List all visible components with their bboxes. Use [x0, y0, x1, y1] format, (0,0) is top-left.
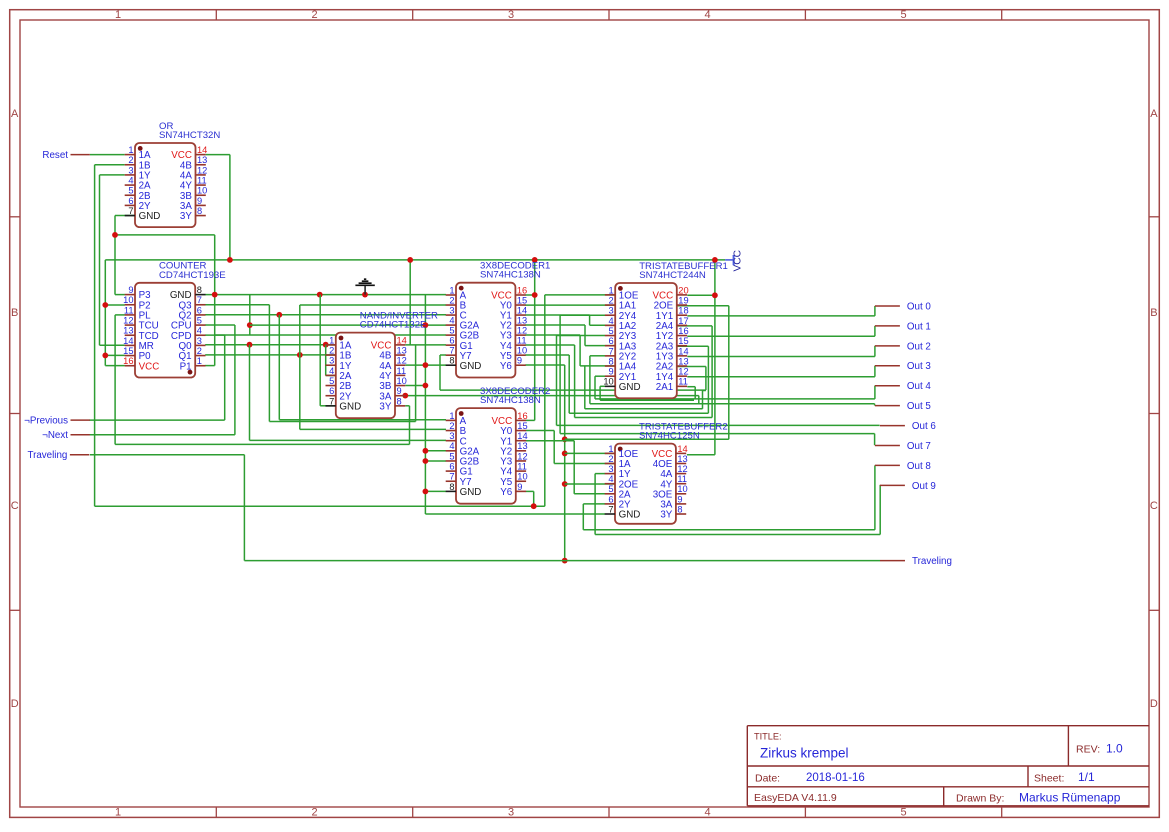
svg-text:9: 9: [677, 494, 682, 504]
svg-text:11: 11: [677, 474, 687, 484]
junction: [247, 322, 253, 328]
wire: [250, 324, 446, 326]
wire: [687, 386, 695, 388]
pin 2 (1A1): [605, 304, 615, 306]
svg-text:9: 9: [609, 367, 614, 377]
pin 8 (3Y): [676, 513, 686, 515]
svg-text:3: 3: [449, 431, 454, 441]
pin 8 (GND): [195, 294, 205, 296]
svg-text:3: 3: [449, 305, 454, 315]
pin 8 (1A4): [605, 365, 615, 367]
wire: [583, 503, 605, 505]
svg-text:2018-01-16: 2018-01-16: [806, 772, 865, 784]
svg-text:16: 16: [517, 411, 527, 421]
svg-text:4: 4: [704, 807, 710, 819]
wire: [205, 334, 225, 336]
pin 5 (2A): [605, 493, 615, 495]
junction: [712, 292, 718, 298]
pin 13 (4B): [196, 164, 206, 166]
node Out 7: [875, 441, 931, 452]
wire: [583, 529, 875, 531]
wire: [405, 344, 446, 346]
pin 6 (Q2): [195, 314, 205, 316]
wire: [115, 314, 125, 316]
pin 3 (1Y): [326, 364, 336, 366]
node Traveling: [880, 556, 952, 567]
svg-text:4: 4: [609, 316, 614, 326]
pin 17 (2A4): [677, 324, 687, 326]
wire: [100, 344, 125, 346]
svg-text:GND: GND: [139, 211, 161, 222]
node Out 2: [875, 341, 931, 352]
wire: [205, 344, 326, 346]
svg-text:SN74HC138N: SN74HC138N: [480, 395, 541, 406]
wire: [326, 344, 336, 346]
svg-text:3: 3: [128, 165, 133, 175]
svg-text:15: 15: [123, 346, 133, 356]
svg-text:SN74HCT244N: SN74HCT244N: [639, 270, 706, 281]
wire: [600, 399, 694, 401]
wire: [525, 294, 534, 296]
junction: [297, 352, 303, 358]
svg-text:1: 1: [449, 411, 454, 421]
pin 9 (Y6): [515, 364, 525, 366]
pin 5 (2B): [125, 194, 135, 196]
svg-text:19: 19: [678, 295, 688, 305]
pin 14 (Y1): [515, 314, 525, 316]
svg-text:B: B: [1150, 307, 1157, 319]
wire: [114, 235, 116, 295]
wire: [440, 389, 706, 391]
junction: [423, 322, 429, 328]
pin 10 (3OE): [676, 493, 686, 495]
svg-text:CD74HCT132E: CD74HCT132E: [360, 320, 427, 331]
wire: [243, 455, 245, 561]
svg-text:8: 8: [397, 396, 402, 406]
wire: [115, 294, 125, 296]
pin 13 (Y2): [516, 450, 526, 452]
pin 6 (G1): [446, 344, 456, 346]
wire: [534, 260, 536, 421]
svg-text:3Y: 3Y: [180, 211, 192, 222]
IC OR SN74HCT32N: [125, 121, 221, 227]
pin 12 (Y3): [515, 334, 525, 336]
wire: [574, 493, 615, 495]
junction: [532, 292, 538, 298]
wire: [589, 356, 591, 404]
svg-text:7: 7: [449, 472, 454, 482]
wire: [244, 560, 880, 562]
svg-text:4: 4: [128, 175, 133, 185]
svg-text:Out 3: Out 3: [907, 361, 932, 372]
node Out 0: [875, 301, 932, 312]
pin 5 (2Y3): [605, 335, 615, 337]
svg-text:13: 13: [517, 315, 527, 325]
wire: [115, 215, 135, 217]
pin 14 (MR): [125, 344, 135, 346]
svg-text:11: 11: [124, 305, 134, 315]
svg-text:5: 5: [609, 326, 614, 336]
junction: [423, 362, 429, 368]
svg-text:P1: P1: [180, 361, 192, 372]
wire: [595, 534, 880, 536]
svg-text:4: 4: [197, 326, 202, 336]
wire: [694, 387, 696, 399]
svg-text:5: 5: [197, 315, 202, 325]
pin 2 (1A): [605, 463, 615, 465]
svg-text:13: 13: [677, 454, 687, 464]
svg-text:3: 3: [329, 356, 334, 366]
wire: [89, 434, 235, 436]
svg-text:Reset: Reset: [42, 150, 68, 161]
pin 4 (1A2): [605, 324, 615, 326]
svg-text:14: 14: [397, 335, 407, 345]
wire: [594, 474, 596, 535]
svg-text:14: 14: [197, 145, 207, 155]
wire: [533, 491, 535, 506]
svg-text:13: 13: [397, 345, 407, 355]
svg-text:2: 2: [449, 421, 454, 431]
node Out 4: [875, 381, 932, 392]
pin 12 (TCU): [125, 324, 135, 326]
svg-text:3Y: 3Y: [660, 510, 672, 521]
wire: [90, 154, 125, 156]
node ¬Previous: [24, 416, 90, 427]
wire: [205, 314, 446, 316]
svg-text:2A1: 2A1: [656, 382, 673, 393]
pin 14 (Y1): [516, 440, 526, 442]
svg-text:6: 6: [608, 494, 613, 504]
wire: [575, 417, 713, 419]
wire: [405, 405, 409, 407]
svg-text:16: 16: [517, 285, 527, 295]
junction: [317, 292, 323, 298]
pin 14 (VCC): [395, 344, 405, 346]
pin 14 (VCC): [676, 452, 686, 454]
svg-text:5: 5: [329, 376, 334, 386]
wire: [560, 433, 875, 435]
wire: [595, 473, 605, 475]
svg-text:4: 4: [704, 9, 710, 21]
pin 10 (3B): [395, 385, 405, 387]
svg-text:6: 6: [449, 336, 454, 346]
junction: [112, 232, 118, 238]
wire: [589, 315, 591, 325]
junction: [532, 257, 538, 263]
svg-text:¬Previous: ¬Previous: [24, 416, 68, 427]
svg-text:13: 13: [678, 356, 688, 366]
svg-text:9: 9: [197, 196, 202, 206]
wire: [279, 419, 446, 421]
node Out 5: [875, 401, 932, 412]
wire: [525, 324, 585, 326]
svg-text:Out 6: Out 6: [912, 421, 937, 432]
wire: [560, 314, 605, 316]
svg-text:EasyEDA V4.11.9: EasyEDA V4.11.9: [754, 792, 837, 804]
wire: [325, 345, 327, 376]
wire: [580, 365, 615, 367]
svg-text:12: 12: [197, 165, 207, 175]
svg-text:9: 9: [517, 356, 522, 366]
pin 9 (P3): [125, 294, 135, 296]
wire: [677, 325, 712, 327]
svg-text:1: 1: [609, 285, 614, 295]
svg-text:SN74HC138N: SN74HC138N: [480, 270, 541, 281]
pin 6 (2Y): [605, 503, 615, 505]
junction: [276, 312, 282, 318]
pin 6 (G1): [446, 470, 456, 472]
wire: [205, 324, 235, 326]
pin 8 (3Y): [196, 215, 206, 217]
svg-text:1: 1: [608, 444, 613, 454]
wire: [89, 419, 224, 421]
wire: [707, 346, 709, 413]
svg-text:3Y: 3Y: [379, 401, 391, 412]
svg-text:12: 12: [677, 464, 687, 474]
wire: [99, 175, 101, 345]
node Out 6: [880, 421, 937, 432]
svg-text:2: 2: [609, 295, 614, 305]
svg-text:Zirkus krempel: Zirkus krempel: [760, 746, 849, 761]
wire: [879, 485, 881, 535]
svg-text:12: 12: [678, 367, 688, 377]
wire: [249, 295, 251, 335]
svg-text:5: 5: [900, 9, 906, 21]
svg-text:8: 8: [609, 356, 614, 366]
wire: [424, 295, 426, 514]
svg-text:1: 1: [115, 807, 121, 819]
svg-text:CD74HCT193E: CD74HCT193E: [159, 270, 226, 281]
wire: [557, 335, 606, 337]
svg-text:GND: GND: [460, 361, 482, 372]
node Out 9: [880, 481, 936, 492]
wire: [94, 165, 96, 506]
pin 3 (1Y): [605, 473, 615, 475]
pin 16 (VCC): [515, 294, 525, 296]
node Reset: [42, 150, 89, 161]
svg-text:¬Next: ¬Next: [42, 430, 68, 441]
svg-text:2: 2: [197, 346, 202, 356]
svg-text:GND: GND: [460, 487, 482, 498]
node Traveling: [27, 450, 89, 461]
wire: [215, 334, 446, 336]
pin 13 (2A2): [677, 365, 687, 367]
svg-text:8: 8: [677, 504, 682, 514]
junction: [323, 342, 329, 348]
svg-text:7: 7: [608, 504, 613, 514]
svg-text:9: 9: [397, 386, 402, 396]
wire: [326, 375, 336, 377]
svg-text:7: 7: [609, 346, 614, 356]
pin 13 (TCD): [125, 334, 135, 336]
svg-text:VCC: VCC: [139, 361, 160, 372]
wire: [874, 326, 876, 336]
wire: [234, 325, 236, 435]
wire: [705, 367, 707, 391]
svg-text:6: 6: [329, 386, 334, 396]
svg-text:Drawn By:: Drawn By:: [956, 793, 1004, 805]
pin 8 (GND): [446, 364, 456, 366]
svg-text:8: 8: [449, 482, 454, 492]
wire: [95, 505, 545, 507]
svg-text:11: 11: [517, 336, 527, 346]
pin 11 (PL): [125, 314, 135, 316]
pin 15 (2A3): [677, 345, 687, 347]
pin 11 (4Y): [196, 184, 206, 186]
wire: [206, 154, 230, 156]
wire: [229, 155, 231, 260]
pin 7 (2Y2): [605, 355, 615, 357]
svg-text:2: 2: [608, 454, 613, 464]
svg-text:4: 4: [608, 474, 613, 484]
svg-text:2: 2: [311, 807, 317, 819]
pin 2 (1B): [326, 354, 336, 356]
wire: [556, 336, 558, 426]
svg-text:2: 2: [329, 345, 334, 355]
pin 5 (2B): [326, 385, 336, 387]
wire: [105, 304, 125, 306]
junction: [212, 292, 218, 298]
IC TRISTATEBUFFER2 SN74HC125N: [605, 421, 728, 523]
wire: [409, 260, 411, 345]
svg-text:Traveling: Traveling: [27, 450, 67, 461]
wire: [425, 460, 446, 462]
wire: [728, 306, 730, 440]
svg-text:10: 10: [397, 376, 407, 386]
svg-text:3: 3: [508, 9, 514, 21]
wire: [205, 354, 336, 356]
junction: [423, 489, 429, 495]
pin 19 (2OE): [677, 304, 687, 306]
svg-text:Out 1: Out 1: [907, 321, 931, 332]
svg-text:2: 2: [311, 9, 317, 21]
svg-text:10: 10: [517, 346, 527, 356]
pin 4 (2A): [125, 184, 135, 186]
wire: [105, 259, 725, 261]
junction: [102, 302, 108, 308]
pin 2 (1B): [125, 164, 135, 166]
svg-text:14: 14: [677, 444, 687, 454]
wire: [250, 439, 447, 441]
wire: [874, 434, 876, 446]
wire: [525, 354, 569, 356]
svg-text:1/1: 1/1: [1078, 770, 1095, 784]
wire: [687, 315, 875, 317]
wire: [874, 306, 876, 316]
junction: [423, 383, 429, 389]
svg-text:14: 14: [517, 305, 527, 315]
pin 7 (GND): [326, 405, 336, 407]
pin 13 (Y2): [515, 324, 525, 326]
wire: [526, 430, 554, 432]
pin 1 (A): [446, 294, 456, 296]
wire: [525, 334, 580, 336]
svg-text:11: 11: [517, 462, 527, 472]
svg-text:SN74HCT32N: SN74HCT32N: [159, 130, 220, 141]
svg-text:9: 9: [517, 482, 522, 492]
svg-text:GND: GND: [619, 382, 641, 393]
pin 16 (1Y2): [677, 335, 687, 337]
pin 11 (4Y): [676, 483, 686, 485]
pin 10 (Y5): [516, 480, 526, 482]
svg-text:8: 8: [449, 356, 454, 366]
wire: [582, 504, 584, 530]
svg-text:12: 12: [517, 326, 527, 336]
svg-text:A: A: [11, 108, 19, 120]
wire: [874, 346, 876, 357]
svg-text:B: B: [11, 307, 18, 319]
wire: [594, 376, 596, 399]
svg-text:13: 13: [517, 441, 527, 451]
wire: [585, 345, 615, 347]
wire: [600, 385, 605, 387]
wire: [874, 366, 876, 377]
wire: [677, 366, 706, 368]
svg-text:Date:: Date:: [755, 773, 780, 785]
wire: [526, 490, 534, 492]
pin 7 (GND): [125, 215, 135, 217]
junction: [227, 257, 233, 263]
junction: [531, 503, 537, 509]
svg-text:13: 13: [197, 155, 207, 165]
svg-text:15: 15: [678, 336, 688, 346]
pin 18 (1Y1): [677, 314, 687, 316]
wire: [205, 304, 269, 306]
pin 5 (CPU): [195, 324, 205, 326]
pin 1 (1OE): [605, 452, 615, 454]
wire: [320, 405, 336, 407]
wire: [687, 376, 875, 378]
pin 12 (1Y4): [677, 375, 687, 377]
svg-text:Sheet:: Sheet:: [1034, 773, 1064, 785]
svg-text:14: 14: [517, 431, 527, 441]
svg-text:8: 8: [197, 285, 202, 295]
pin 14 (1Y3): [677, 355, 687, 357]
pin 10 (Y5): [515, 354, 525, 356]
svg-text:11: 11: [197, 175, 207, 185]
wire: [268, 305, 270, 422]
svg-text:6: 6: [128, 196, 133, 206]
svg-text:14: 14: [678, 346, 688, 356]
svg-text:5: 5: [449, 451, 454, 461]
svg-text:16: 16: [123, 356, 133, 366]
IC COUNTER CD74HCT193E: [123, 261, 226, 378]
svg-text:Y6: Y6: [500, 487, 513, 498]
IC TRISTATEBUFFER1 SN74HCT244N: [603, 261, 728, 398]
svg-text:10: 10: [603, 377, 613, 387]
svg-text:15: 15: [517, 295, 527, 305]
wire: [95, 164, 125, 166]
wire: [425, 490, 446, 492]
svg-text:5: 5: [900, 807, 906, 819]
wire: [585, 408, 703, 410]
svg-text:6: 6: [609, 336, 614, 346]
wire: [599, 386, 601, 400]
node ¬Next: [42, 430, 90, 441]
pin 2 (B): [446, 430, 456, 432]
wire: [711, 326, 713, 418]
wire: [105, 365, 125, 367]
wire: [100, 174, 125, 176]
wire: [525, 304, 615, 306]
wire: [553, 431, 555, 464]
node Out 1: [875, 321, 931, 332]
pin 11 (Y4): [515, 344, 525, 346]
svg-text:Markus Rümenapp: Markus Rümenapp: [1019, 791, 1121, 805]
wire: [687, 356, 875, 358]
wire: [299, 305, 301, 429]
svg-text:5: 5: [128, 186, 133, 196]
